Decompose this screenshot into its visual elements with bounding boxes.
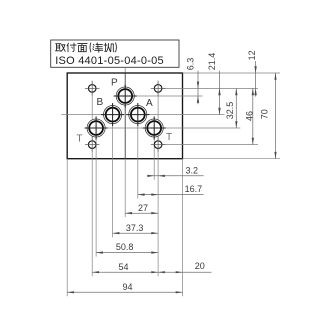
dimension 50.8 (T left to bolt column)	[96, 242, 158, 254]
extension row bolt row 1	[163, 87, 259, 89]
extension column port A	[137, 103, 139, 198]
dimension 21.4 (bolt row to A/B row)	[207, 53, 221, 115]
svg-text:70: 70	[259, 109, 269, 119]
bolt hole top-left	[85, 81, 100, 96]
dimension 27 (P to bolt column)	[125, 203, 158, 215]
port A	[126, 103, 149, 126]
extension row bottom edge	[183, 158, 281, 160]
dimension 20 (bolt column to right edge)	[158, 261, 211, 273]
port P	[114, 85, 137, 108]
port B	[101, 103, 124, 126]
svg-text:46: 46	[244, 111, 254, 121]
centerline row P	[114, 95, 203, 97]
label A	[146, 98, 153, 109]
dimension 37.3 (B to bolt column)	[113, 223, 159, 235]
extension column bolt right	[157, 81, 159, 277]
dimension 32.5 (bolt row to T row)	[225, 88, 237, 128]
svg-text:20: 20	[195, 261, 205, 271]
svg-text:54: 54	[118, 262, 128, 272]
dimension 16.7 (A to bolt column)	[138, 184, 204, 196]
bolt hole top-right	[151, 81, 166, 96]
leader line from title box to P column	[124, 67, 126, 73]
bolt hole bottom-right	[151, 137, 166, 152]
svg-text:6.3: 6.3	[186, 58, 196, 71]
centerline row T	[85, 127, 240, 129]
extension column port T right	[153, 116, 155, 180]
label B	[96, 97, 103, 108]
title text 取付面(準拠)	[55, 43, 116, 52]
extension row top edge	[183, 72, 281, 74]
svg-text:3.2: 3.2	[185, 165, 198, 175]
title box	[51, 40, 179, 67]
dimension 3.2 (T right to bolt column)	[147, 165, 203, 177]
extension row bolt row 2	[163, 144, 259, 146]
svg-text:T: T	[166, 132, 172, 143]
svg-text:27: 27	[138, 203, 148, 213]
body outline (mounting face 94 x 70)	[67, 73, 182, 159]
centerline column P	[124, 73, 126, 217]
dimension 46 (bolt row to bolt row)	[244, 88, 254, 144]
extension column port B	[112, 103, 114, 237]
extension column body right edge	[182, 159, 184, 297]
svg-text:T: T	[77, 133, 83, 144]
svg-text:16.7: 16.7	[185, 184, 203, 194]
svg-text:37.3: 37.3	[126, 223, 144, 233]
svg-text:94: 94	[122, 282, 132, 292]
label P	[111, 78, 118, 89]
svg-text:P: P	[111, 78, 118, 89]
port T left	[85, 117, 108, 140]
svg-text:21.4: 21.4	[207, 53, 217, 71]
extension column port T left	[95, 116, 97, 256]
title text ISO 4401-05-04-0-05	[55, 55, 164, 67]
centerline row A/B	[61, 114, 224, 116]
port T right	[143, 117, 166, 140]
dimension 54 (bolt column spacing)	[92, 262, 158, 274]
label T left	[77, 133, 83, 144]
extension column body left edge	[66, 159, 68, 297]
svg-text:12: 12	[247, 50, 257, 60]
svg-text:A: A	[146, 98, 153, 109]
svg-text:50.8: 50.8	[116, 242, 134, 252]
extension column bolt left	[91, 81, 93, 277]
dimension 94 (overall width)	[67, 282, 182, 294]
dimension 12 (top edge to bolt row)	[247, 50, 257, 96]
label T right	[166, 132, 172, 143]
dimension 6.3 (bolt row to P row)	[186, 58, 200, 105]
svg-text:ISO 4401-05-04-0-05: ISO 4401-05-04-0-05	[55, 55, 164, 67]
bolt hole bottom-left	[85, 137, 100, 152]
svg-text:32.5: 32.5	[225, 102, 235, 120]
svg-text:B: B	[96, 97, 103, 108]
dimension 70 (overall height)	[259, 73, 276, 159]
